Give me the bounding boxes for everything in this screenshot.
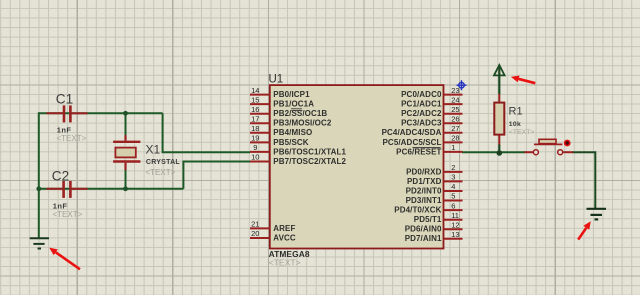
svg-text:15: 15 bbox=[251, 95, 259, 104]
node junction C2-crystal bbox=[123, 186, 128, 191]
svg-text:PD2/INT0: PD2/INT0 bbox=[406, 186, 442, 195]
wire crystal bottom lead bbox=[125, 170, 127, 189]
U1 left pin names bbox=[273, 90, 346, 242]
svg-text:C1: C1 bbox=[56, 92, 73, 107]
wire C2 corner up to pin 10 bbox=[183, 162, 250, 189]
microcontroller U1 ATMEGA8 body bbox=[270, 85, 444, 248]
U1 right pin numbers bbox=[451, 86, 459, 239]
U1 left pin stubs bbox=[250, 95, 270, 238]
svg-text:16: 16 bbox=[251, 105, 259, 114]
red annotation arrow at left ground bbox=[49, 248, 80, 271]
svg-text:PC0/ADC0: PC0/ADC0 bbox=[401, 90, 442, 99]
U1 right pin stubs bbox=[444, 95, 463, 239]
svg-text:17: 17 bbox=[251, 114, 259, 123]
U1 right pin names bbox=[382, 90, 442, 243]
power symbol (arrow up) bbox=[494, 65, 505, 75]
underline under OC of PB1/OC1A bbox=[291, 108, 302, 110]
svg-text:<TEXT>: <TEXT> bbox=[269, 257, 301, 267]
svg-text:PB7/TOSC2/XTAL2: PB7/TOSC2/XTAL2 bbox=[273, 157, 346, 166]
svg-text:PB5/SCK: PB5/SCK bbox=[273, 138, 308, 147]
svg-text:21: 21 bbox=[251, 220, 259, 229]
svg-text:10: 10 bbox=[251, 153, 259, 162]
svg-text:PD0/RXD: PD0/RXD bbox=[406, 167, 441, 176]
svg-text:<TEXT>: <TEXT> bbox=[509, 129, 535, 136]
wire corner down to pin 9 bbox=[163, 113, 250, 152]
svg-text:PD3/INT1: PD3/INT1 bbox=[406, 196, 442, 205]
svg-text:PD6/AIN0: PD6/AIN0 bbox=[405, 225, 442, 234]
svg-text:PB3/MOSI/OC2: PB3/MOSI/OC2 bbox=[273, 119, 332, 128]
svg-text:9: 9 bbox=[253, 143, 257, 152]
svg-text:X1: X1 bbox=[146, 143, 161, 157]
svg-text:4: 4 bbox=[451, 182, 455, 191]
svg-text:PD5/T1: PD5/T1 bbox=[414, 215, 442, 224]
svg-text:11: 11 bbox=[451, 211, 459, 220]
wire power stem bbox=[498, 67, 500, 94]
svg-text:U1: U1 bbox=[269, 74, 284, 86]
resistor R1 bbox=[494, 103, 534, 136]
node junction C1-crystal bbox=[123, 111, 128, 116]
node junction R1-reset wire bbox=[497, 150, 503, 156]
svg-text:PB6/TOSC1/XTAL1: PB6/TOSC1/XTAL1 bbox=[273, 147, 346, 156]
svg-text:18: 18 bbox=[251, 124, 259, 133]
svg-text:AREF: AREF bbox=[273, 224, 295, 233]
svg-text:23: 23 bbox=[451, 86, 459, 95]
wire button right to ground bbox=[572, 152, 595, 208]
wire crystal top lead bbox=[125, 113, 127, 136]
red annotation arrow at right ground bbox=[577, 221, 591, 240]
svg-text:5: 5 bbox=[451, 192, 455, 201]
wire C1 row to corner bbox=[39, 112, 163, 114]
node junction C2-left wire bbox=[36, 186, 41, 191]
svg-text:PB1/OC1A: PB1/OC1A bbox=[273, 100, 314, 109]
svg-text:PC1/ADC1: PC1/ADC1 bbox=[401, 100, 442, 109]
svg-text:28: 28 bbox=[451, 134, 459, 143]
wire reset row from pin 1 bbox=[462, 151, 526, 153]
svg-text:19: 19 bbox=[251, 134, 259, 143]
crystal X1 bbox=[113, 135, 180, 177]
capacitor C2 bbox=[47, 169, 88, 220]
svg-text:27: 27 bbox=[451, 124, 459, 133]
svg-text:20: 20 bbox=[251, 229, 259, 238]
red annotation arrow at power bbox=[511, 76, 536, 85]
wire left vertical to ground bbox=[38, 112, 40, 238]
U1 left pin numbers bbox=[251, 86, 259, 238]
svg-text:PB0/ICP1: PB0/ICP1 bbox=[273, 90, 310, 99]
svg-text:14: 14 bbox=[251, 86, 259, 95]
svg-text:PC5/ADC5/SCL: PC5/ADC5/SCL bbox=[383, 138, 442, 147]
svg-text:PD7/AIN1: PD7/AIN1 bbox=[405, 234, 442, 243]
svg-text:PC2/ADC2: PC2/ADC2 bbox=[401, 109, 442, 118]
svg-text:13: 13 bbox=[451, 230, 459, 239]
svg-text:PC3/ADC3: PC3/ADC3 bbox=[401, 119, 442, 128]
svg-text:<TEXT>: <TEXT> bbox=[53, 210, 83, 219]
svg-text:3: 3 bbox=[451, 173, 455, 182]
resistor R1 bottom pin bbox=[498, 134, 500, 145]
node marker (blue origin cross) bbox=[457, 80, 467, 90]
svg-text:PB4/MISO: PB4/MISO bbox=[273, 128, 312, 137]
wire R1 bottom lead bbox=[498, 145, 500, 153]
ground (right) bbox=[587, 209, 607, 220]
svg-text:2: 2 bbox=[451, 163, 455, 172]
svg-text:PC6/RESET: PC6/RESET bbox=[396, 147, 441, 156]
overline over RESET of PC6/RESET bbox=[413, 147, 441, 149]
overline over SS of PB2/SS/OC1B bbox=[292, 110, 303, 112]
wire C2 row bbox=[39, 188, 184, 190]
svg-text:AVCC: AVCC bbox=[273, 233, 296, 242]
svg-text:C2: C2 bbox=[52, 169, 69, 184]
svg-text:10k: 10k bbox=[509, 121, 521, 128]
ground (left) bbox=[30, 238, 49, 248]
svg-text:25: 25 bbox=[451, 105, 459, 114]
resistor R1 top pin bbox=[498, 94, 500, 104]
svg-text:<TEXT>: <TEXT> bbox=[57, 134, 87, 143]
svg-text:26: 26 bbox=[451, 114, 459, 123]
svg-text:<TEXT>: <TEXT> bbox=[146, 168, 176, 177]
svg-text:6: 6 bbox=[451, 201, 455, 210]
svg-text:1: 1 bbox=[451, 143, 455, 152]
svg-text:PD1/TXD: PD1/TXD bbox=[407, 177, 442, 186]
svg-text:R1: R1 bbox=[509, 106, 523, 118]
svg-text:CRYSTAL: CRYSTAL bbox=[146, 159, 181, 166]
svg-text:24: 24 bbox=[451, 95, 459, 104]
switch (push button) bbox=[524, 139, 573, 154]
svg-text:PD4/T0/XCK: PD4/T0/XCK bbox=[394, 206, 441, 215]
capacitor C1 bbox=[47, 92, 88, 143]
svg-text:12: 12 bbox=[451, 220, 459, 229]
svg-text:PC4/ADC4/SDA: PC4/ADC4/SDA bbox=[382, 128, 442, 137]
